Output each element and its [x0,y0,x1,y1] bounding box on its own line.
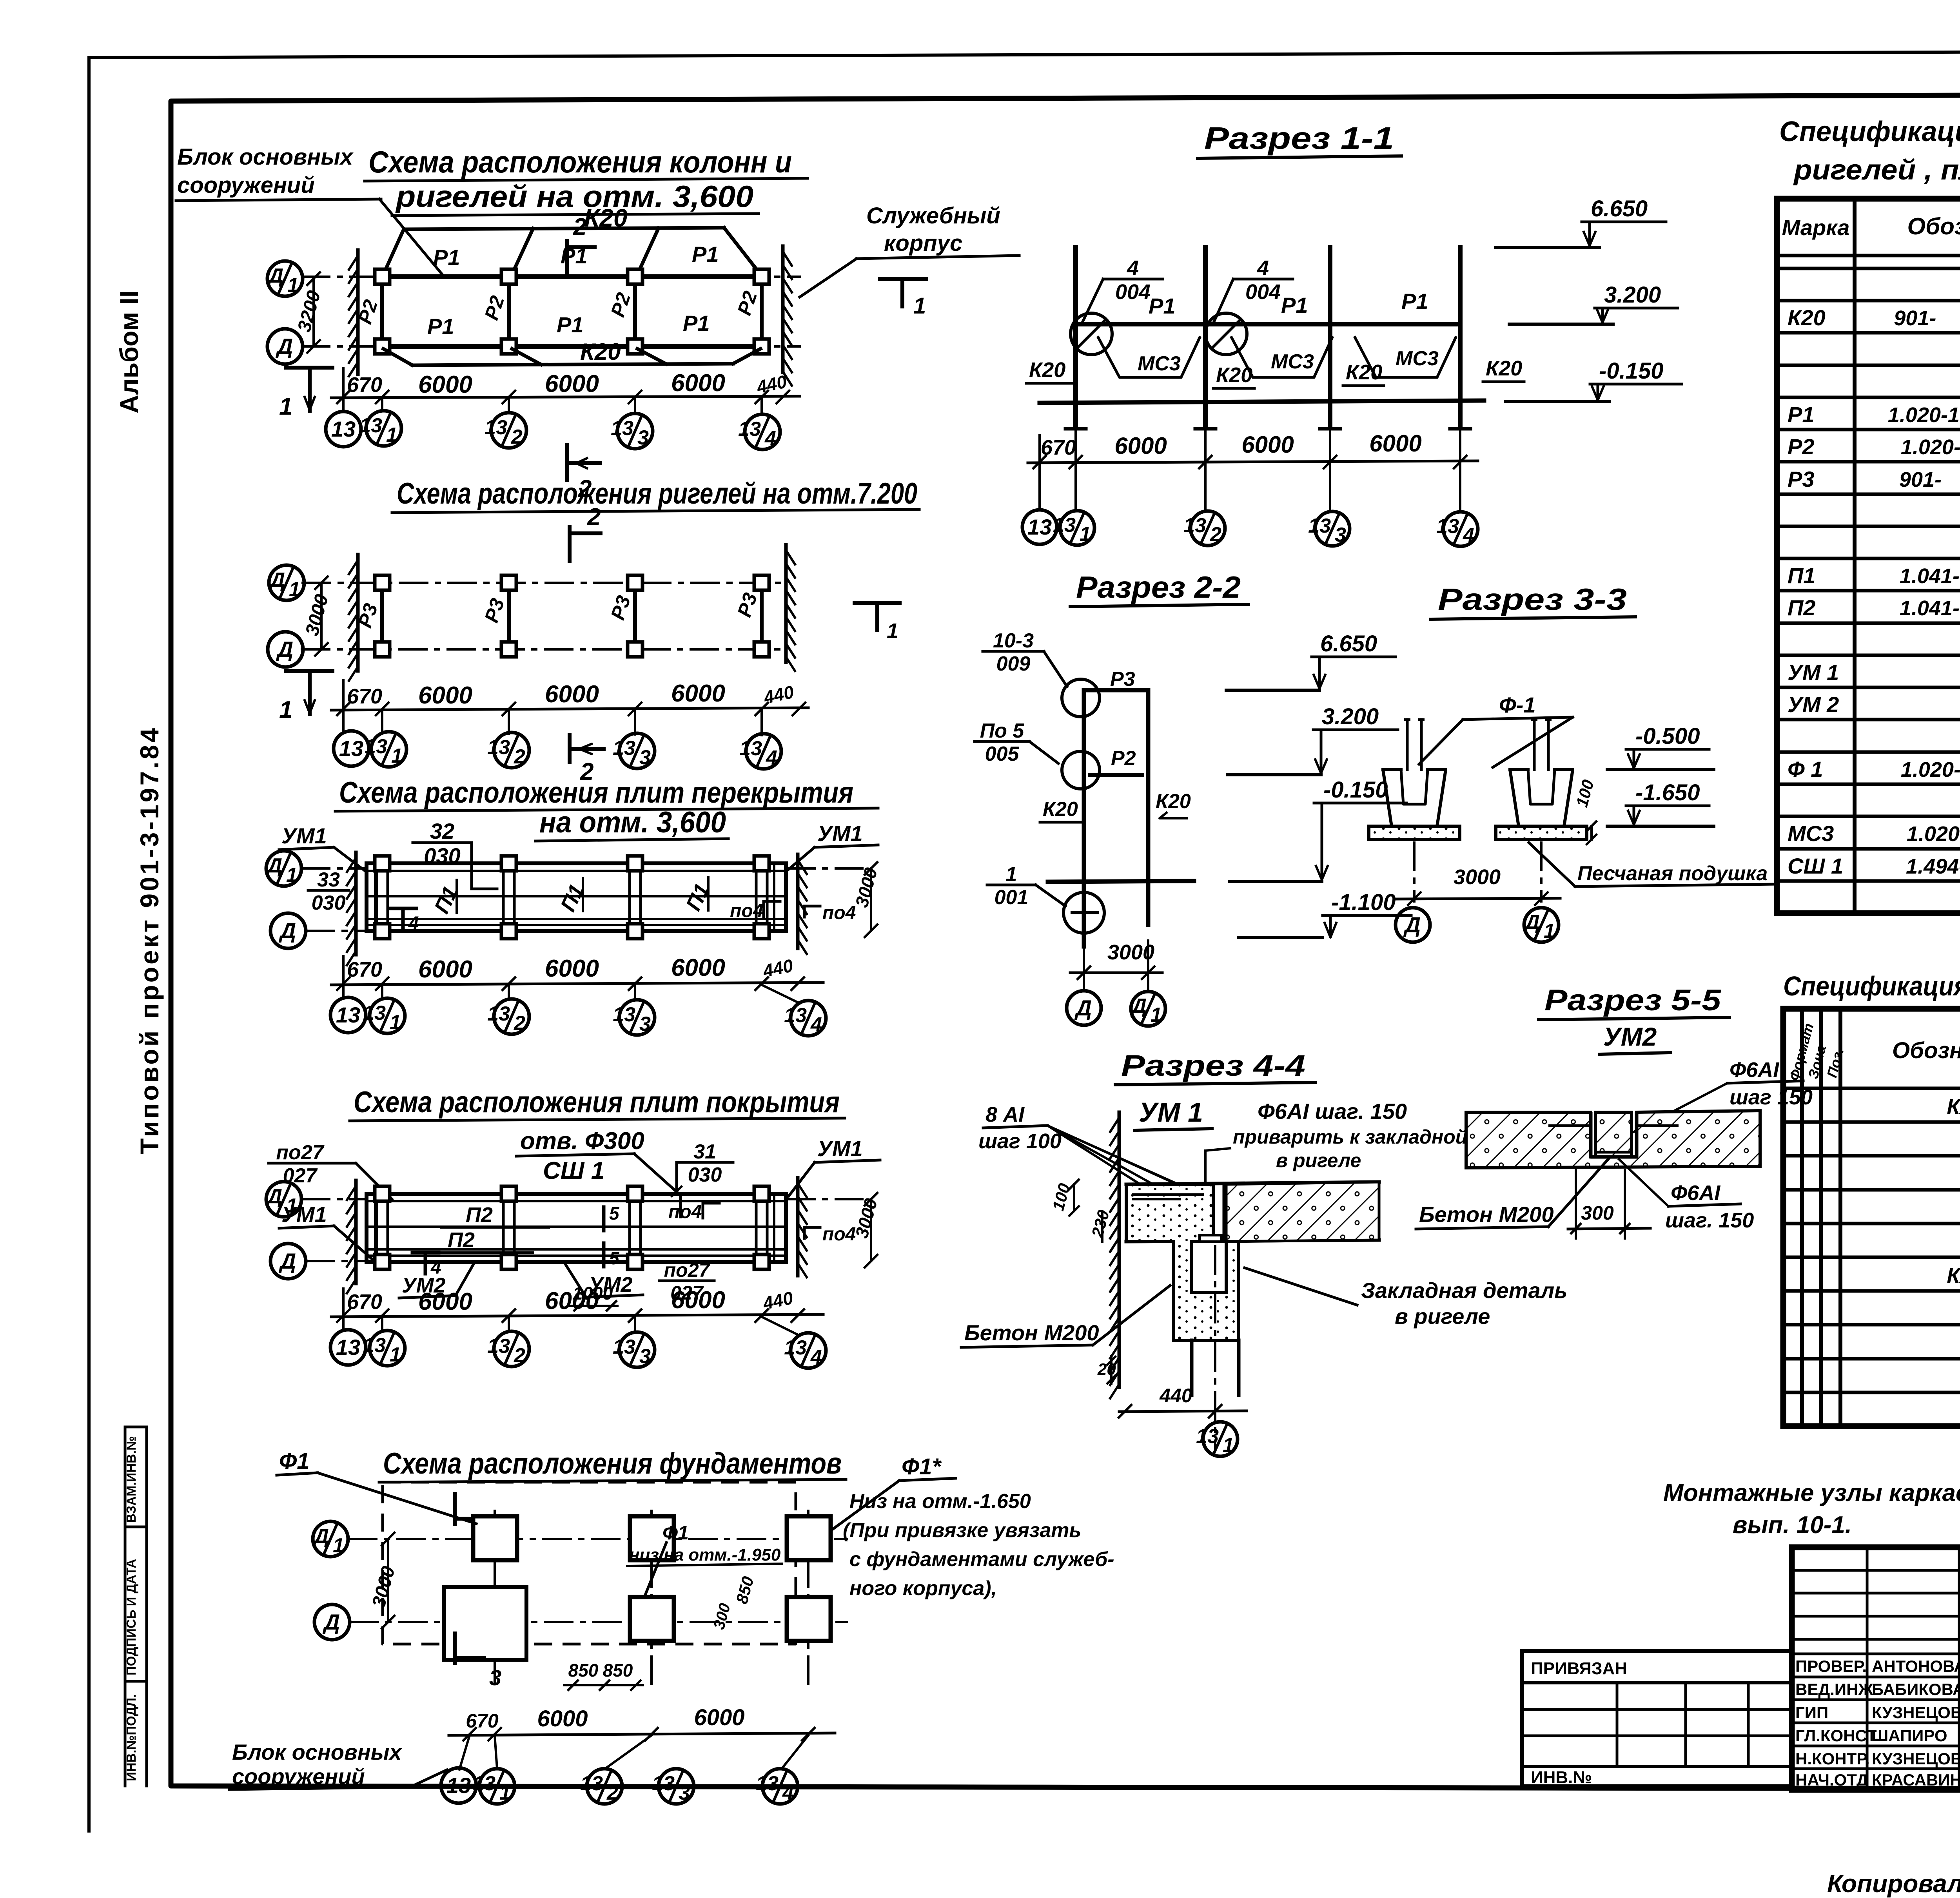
svg-text:1: 1 [279,696,292,723]
scheme1 girders P2 vertical [382,277,762,346]
table1 row R1 [1788,402,1960,427]
scheme3 label UM1 right [789,821,878,869]
razrez3 foundation glass right [1496,720,1587,839]
svg-text:по4: по4 [668,1202,702,1222]
svg-text:1: 1 [499,1782,511,1804]
svg-text:Д: Д [1074,995,1092,1020]
svg-text:6000: 6000 [1114,433,1167,459]
svg-text:1.041-1 В.1. 1000: 1.041-1 В.1. 1000 [1900,564,1960,588]
svg-text:К20: К20 [1216,363,1252,387]
svg-text:005: 005 [985,743,1020,765]
svg-text:4: 4 [766,747,777,769]
svg-text:030: 030 [312,892,346,914]
svg-text:4: 4 [764,427,776,450]
svg-text:УМ 1: УМ 1 [1139,1097,1203,1128]
svg-text:Обозначение: Обозначение [1892,1038,1960,1063]
svg-text:13: 13 [331,417,356,441]
label Sluzhebny korpus [800,203,1019,297]
scheme2 axis circles bottom row [334,710,781,769]
svg-text:670: 670 [347,1290,382,1314]
scheme1 left wall [356,250,360,374]
svg-text:Схема расположения ригелей на: Схема расположения ригелей на отм.7.200 [397,477,917,510]
svg-text:К20: К20 [1346,361,1382,384]
scheme1 girders P1 on axis D [382,344,762,349]
svg-text:Спецификация элементов моноли: Спецификация элементов монолитных участк… [1783,971,1960,1001]
svg-text:Низ на отм.-1.650: Низ на отм.-1.650 [849,1490,1031,1513]
svg-text:ИНВ.№: ИНВ.№ [1531,1768,1592,1787]
scheme4 axis D [270,1244,365,1279]
svg-text:13: 13 [365,735,387,758]
scheme1 right wall [781,246,785,372]
svg-text:КЖ-: КЖ- [1947,1095,1960,1118]
svg-text:1: 1 [333,1534,344,1557]
razrez1 columns K20 [1076,247,1460,426]
svg-text:1: 1 [1006,863,1017,886]
scheme4 section marks 5 [604,1203,620,1268]
svg-text:4: 4 [1257,256,1269,280]
svg-text:009: 009 [996,653,1031,675]
table1 row F1 [1788,757,1960,781]
svg-text:4: 4 [782,1782,794,1804]
svg-text:К20: К20 [1486,357,1522,380]
svg-text:-1.100: -1.100 [1331,890,1396,915]
scheme5 section mark 3 top [455,1494,501,1538]
svg-text:13: 13 [756,1772,779,1795]
svg-text:2: 2 [514,745,525,768]
svg-text:13: 13 [1308,515,1331,537]
svg-text:6000: 6000 [545,370,599,397]
svg-text:УМ 1: УМ 1 [1788,660,1839,685]
svg-text:Типовой проект 901-3-197.84: Типовой проект 901-3-197.84 [135,726,164,1154]
svg-text:13: 13 [485,416,507,439]
label Blok osnovnyh sooruzheniy bottom-left [229,1740,447,1789]
razrez1 ground line [1040,401,1484,403]
svg-text:440: 440 [1159,1385,1192,1407]
svg-text:1: 1 [1223,1434,1234,1457]
svg-text:Ф 1: Ф 1 [1788,757,1823,781]
svg-text:1: 1 [286,864,298,886]
svg-text:БАБИКОВА: БАБИКОВА [1872,1680,1960,1699]
scheme3 plate joints at columns [377,863,767,931]
scheme3 section mark 4 [390,908,419,934]
scheme5 building outline dashed [383,1482,796,1644]
table1 grid [1777,199,1960,913]
svg-text:низ на отм.-1.950: низ на отм.-1.950 [629,1545,781,1564]
scheme4 slab band [367,1194,786,1262]
svg-text:13: 13 [363,1002,386,1024]
razrez4 dim 20 [1097,1356,1116,1383]
svg-text:2: 2 [514,1344,525,1367]
razrez1 joint circles [1071,313,1247,355]
razrez 4-4 title [1115,1049,1315,1130]
svg-text:13: 13 [611,417,633,440]
razrez1 label 4/004 second [1213,256,1293,323]
razrez4 label Beton M200 [961,1285,1170,1347]
razrez1 MS3 connection trapezoids [1098,336,1456,377]
svg-text:1.041-1 В.1. 8000: 1.041-1 В.1. 8000 [1900,596,1960,620]
scheme4 dimension line [331,1287,823,1329]
scheme3 right wall [796,854,800,948]
svg-text:6.650: 6.650 [1320,631,1377,656]
scheme3 axis D/1 [266,851,862,886]
table1 row UM1 [1788,660,1960,685]
svg-text:Разрез 2-2: Разрез 2-2 [1076,570,1241,604]
razrez4 wall line with hatch [1118,1112,1121,1387]
razrez3 axis circles [1396,908,1559,943]
svg-text:1: 1 [279,393,292,420]
razrez1 dimension line [1028,430,1478,476]
razrez2 column lines [1084,690,1148,946]
text kopiroval [1824,1869,1960,1898]
razrez3 label F-1 [1419,692,1573,767]
svg-text:корпус: корпус [884,230,962,256]
scheme4 dim 3000 right [851,1193,881,1267]
table1 row K20 [1788,305,1960,330]
svg-text:К20: К20 [1788,305,1826,330]
svg-text:13: 13 [1183,514,1206,537]
svg-text:П1: П1 [1788,563,1815,588]
svg-text:6000: 6000 [671,954,725,981]
svg-text:13: 13 [1436,515,1459,538]
svg-text:3: 3 [489,1665,501,1690]
svg-text:К20: К20 [580,339,621,365]
scheme5 foundation squares row D [630,1597,831,1641]
svg-text:6000: 6000 [671,680,725,707]
scheme2 column squares [375,575,769,657]
svg-text:Разрез 3-3: Разрез 3-3 [1438,582,1627,616]
svg-text:6000: 6000 [1369,430,1421,457]
title block frame [1792,1547,1960,1790]
scheme5 axis D/1 [312,1521,847,1557]
svg-text:МС3: МС3 [1788,821,1834,846]
scheme3 label po4 right [804,903,856,923]
svg-text:31: 31 [693,1140,716,1163]
svg-text:Монтажные узлы каркаса гале: Монтажные узлы каркаса галереи приняты п… [1663,1479,1960,1506]
svg-text:6000: 6000 [418,956,472,983]
svg-text:МС3: МС3 [1271,350,1314,373]
razrez2 girder R3 top [1062,668,1148,717]
scheme2 left wall [356,555,360,671]
table1 heading [1779,116,1960,186]
scheme1 girder labels P1 upper [433,242,719,270]
svg-text:2: 2 [514,1012,525,1035]
svg-text:Д: Д [1403,912,1421,937]
razrez1 axis circles [1022,426,1478,547]
scheme3 column squares [375,856,769,939]
svg-text:Схема расположения фундаментов: Схема расположения фундаментов [383,1447,842,1480]
scheme2 labels P3 [354,590,761,631]
svg-text:1.020-1;3-15,000-01: 1.020-1;3-15,000-01 [1888,403,1960,427]
razrez1 labels K20 [1026,357,1524,388]
svg-text:Р1: Р1 [1281,293,1308,317]
svg-text:2: 2 [511,426,523,448]
svg-text:отв. Ф300: отв. Ф300 [520,1128,644,1155]
razrez 2-2 title [1070,570,1249,607]
svg-text:13: 13 [613,1336,635,1358]
svg-text:Копировал: Алешакова: Копировал: Алешакова [1827,1869,1960,1898]
svg-text:Д: Д [312,1525,329,1548]
svg-text:1: 1 [289,578,300,601]
svg-text:ВЕД.ИНЖ: ВЕД.ИНЖ [1795,1680,1873,1699]
svg-text:на отм. 3,600: на отм. 3,600 [539,806,726,839]
svg-text:Д: Д [279,918,296,943]
scheme1 top chord K20 [383,228,760,274]
svg-text:СШ 1: СШ 1 [543,1157,604,1184]
svg-text:Р1: Р1 [1788,402,1815,427]
scheme2 section mark 2 top [568,527,572,561]
svg-text:670: 670 [1041,436,1076,459]
scheme4 plate joints at columns [377,1194,767,1262]
svg-text:КУЗНЕЦОВ: КУЗНЕЦОВ [1872,1703,1960,1722]
svg-text:ИНВ.№ПОДЛ.: ИНВ.№ПОДЛ. [124,1694,138,1781]
svg-text:030: 030 [688,1164,722,1186]
svg-text:К20: К20 [1043,798,1078,821]
scheme4 left wall [354,1180,358,1283]
svg-text:13: 13 [1196,1425,1219,1448]
scheme5 section mark 3 bottom [455,1633,501,1690]
scheme2 dim 3000 between axes [301,576,332,656]
svg-text:вып. 10-1.: вып. 10-1. [1733,1512,1852,1539]
razrez2 axis circles [1067,984,1165,1026]
svg-text:по27: по27 [276,1141,324,1164]
razrez1 label 4/004 first [1082,256,1163,323]
svg-text:Альбом II: Альбом II [114,290,143,413]
svg-text:13: 13 [1053,514,1076,537]
svg-text:13: 13 [739,737,762,760]
svg-text:13: 13 [336,1002,360,1027]
scheme4 dim 1000 [570,1283,617,1311]
table2 row KZh- UM2 [1947,1263,1960,1287]
razrez4 dim 440 [1119,1385,1247,1418]
table1 header texts [1782,210,1960,255]
svg-text:13: 13 [1027,515,1052,539]
svg-text:Схема расположения колонн и: Схема расположения колонн и [368,145,792,179]
scheme4 label 31/030 [672,1140,733,1196]
razrez 5-5 title [1539,984,1730,1054]
svg-text:13: 13 [580,1772,603,1795]
svg-text:670: 670 [347,685,382,708]
scheme1 girders P1 on axis D/1 [382,274,762,279]
svg-text:2: 2 [1210,523,1221,546]
svg-text:3000: 3000 [1454,865,1501,889]
svg-text:Ф-1: Ф-1 [1499,692,1536,717]
svg-text:Р2: Р2 [1788,434,1815,459]
svg-text:2: 2 [573,214,586,241]
svg-text:МС3: МС3 [1138,352,1181,375]
scheme4 axis D/1 [266,1182,862,1217]
svg-text:Н.КОНТР.: Н.КОНТР. [1795,1749,1870,1768]
svg-text:001: 001 [995,886,1029,909]
razrez4 column below [1192,1246,1239,1450]
razrez 3-3 title [1431,582,1635,619]
svg-text:УМ1: УМ1 [281,1202,327,1227]
svg-text:10-3: 10-3 [993,629,1034,652]
svg-text:Д: Д [269,569,285,591]
svg-text:1: 1 [386,424,397,446]
scheme2 axis D [268,632,786,667]
scheme1 labels P2 [354,288,761,327]
scheme5 dim 3000 between axes [368,1533,399,1628]
svg-text:850: 850 [568,1660,599,1680]
scheme4 right wall [796,1178,800,1276]
svg-text:По 5: По 5 [980,720,1025,742]
scheme2 title [392,477,919,513]
svg-text:-0.150: -0.150 [1599,358,1663,384]
table2 row KZh- UM1 [1947,1094,1960,1118]
svg-text:Р2: Р2 [1111,747,1136,770]
svg-text:К20: К20 [1156,790,1191,813]
svg-text:Р1: Р1 [692,242,719,266]
svg-text:Д: Д [267,265,283,287]
svg-text:6000: 6000 [418,682,472,709]
svg-text:шаг 100: шаг 100 [978,1129,1062,1153]
svg-text:Д: Д [266,854,282,877]
svg-text:2: 2 [587,504,601,531]
svg-text:1.494-24 вып. 1: 1.494-24 вып. 1 [1906,855,1960,878]
svg-text:1.020-1.3-1 1.000: 1.020-1.3-1 1.000 [1901,435,1960,459]
svg-text:3: 3 [639,1345,651,1368]
table1 row UM2 [1788,692,1960,717]
svg-text:1: 1 [390,1343,401,1366]
svg-text:4: 4 [1127,256,1139,280]
scheme5 dimension line [449,1705,835,1740]
razrez 1-1 title [1198,121,1401,158]
scheme3 label 32/030 [413,819,497,889]
svg-text:УМ2: УМ2 [1603,1022,1657,1051]
svg-text:2: 2 [606,1782,618,1804]
scheme1 section mark 2 top [565,241,569,276]
scheme4 column squares [375,1186,769,1269]
svg-text:Обозначение: Обозначение [1907,213,1960,239]
razrez1 column base ticks [1065,427,1470,431]
svg-text:МС3: МС3 [1396,347,1439,370]
svg-text:1: 1 [287,274,299,297]
razrez4 dim 230 [1088,1208,1113,1242]
svg-text:Ф6АI: Ф6АI [1671,1181,1720,1205]
svg-text:приварить к закладной: приварить к закладной [1233,1126,1467,1148]
scheme4 labels UM2 below [399,1263,643,1298]
svg-text:1: 1 [1544,920,1555,943]
scheme4 axis circles bottom row [330,1317,826,1369]
title block left sub-table [1792,1547,1960,1790]
svg-text:НАЧ.ОТД: НАЧ.ОТД [1795,1771,1868,1789]
svg-text:Р3: Р3 [1110,668,1135,691]
svg-text:3: 3 [639,746,651,769]
scheme3 dim 3000 right [851,862,881,937]
svg-text:К20: К20 [1029,358,1065,382]
razrez2 base circle [1063,892,1104,933]
razrez1 girder line P1 [1076,322,1460,326]
svg-text:Р1: Р1 [683,311,710,335]
svg-text:3: 3 [679,1782,690,1804]
scheme1 title [365,145,808,216]
scheme3 label po4 inside [730,901,780,921]
svg-text:13: 13 [339,736,363,761]
razrez1 labels MS3 [1138,347,1439,375]
scheme4 slab labels P2 [425,1202,719,1253]
scheme2 girders P3 vertical [382,583,762,649]
svg-text:ПРОВЕР.: ПРОВЕР. [1795,1657,1867,1675]
svg-text:ного корпуса),: ного корпуса), [849,1577,997,1600]
razrez3 dim 3000 [1396,865,1560,905]
svg-text:УМ1: УМ1 [281,823,327,848]
svg-text:1: 1 [887,619,898,643]
section mark T1 right of scheme1 [880,279,926,319]
scheme1 axis D [267,329,800,364]
svg-text:13: 13 [336,1335,360,1360]
scheme4 title [350,1086,845,1121]
svg-text:13: 13 [359,414,382,437]
table1 row MS3 [1788,821,1960,846]
scheme2 section mark 2 bottom [570,735,604,785]
razrez4 monolithic UM1 zone [1126,1184,1239,1340]
scheme5 axis D [314,1604,847,1640]
svg-text:Блок основных: Блок основных [232,1740,403,1764]
svg-text:6000: 6000 [545,955,599,982]
svg-text:3.200: 3.200 [1604,282,1661,308]
svg-text:670: 670 [347,373,382,397]
razrez4 label F6AI shag150 privarit [1205,1099,1467,1196]
svg-text:Блок основных: Блок основных [177,144,354,170]
svg-text:Р1: Р1 [1401,289,1428,314]
svg-text:3.200: 3.200 [1322,704,1379,729]
svg-text:УМ1: УМ1 [817,821,863,846]
svg-text:6000: 6000 [545,681,599,708]
svg-text:4: 4 [1463,524,1474,547]
svg-text:по4: по4 [822,903,856,923]
svg-text:Служебный: Служебный [866,203,1000,228]
scheme5 dashed foundation on axis D [444,1587,526,1660]
svg-text:УМ1: УМ1 [817,1136,863,1161]
scheme3 slab band [367,863,786,931]
svg-text:Д: Д [276,334,293,359]
svg-text:13: 13 [784,1336,807,1359]
svg-text:300: 300 [1581,1202,1614,1224]
svg-text:13: 13 [738,418,761,441]
scheme5 foundation F1 squares row D/1 [473,1516,831,1560]
svg-text:3: 3 [637,426,649,449]
margin stamp column [124,1427,147,1786]
scheme1 dimension line [331,368,800,412]
svg-text:5: 5 [609,1248,620,1268]
svg-text:Ф6АI: Ф6АI [1730,1058,1779,1082]
svg-text:32: 32 [430,819,454,843]
scheme4 label otv F300 SSh1 [516,1128,681,1217]
svg-text:6000: 6000 [545,1287,599,1314]
svg-text:004: 004 [1115,280,1151,304]
svg-text:Д: Д [266,1185,282,1208]
svg-text:Марка: Марка [1782,215,1850,240]
scheme1 dim 3200 between axes [294,272,325,353]
razrez4 axis circle 13/1 [1196,1422,1238,1457]
svg-text:33: 33 [317,868,340,891]
svg-text:КУЗНЕЦОВ: КУЗНЕЦОВ [1872,1749,1960,1768]
razrez2 ground line [1048,881,1194,882]
razrez4 label 8AI shag 100 [978,1103,1213,1200]
svg-text:670: 670 [466,1710,499,1732]
svg-text:901- -КЖИ, К20: 901- -КЖИ, К20 [1894,306,1960,330]
svg-text:13: 13 [613,1003,635,1026]
svg-text:Д: Д [323,1610,340,1634]
svg-text:Разрез 4-4: Разрез 4-4 [1121,1049,1305,1082]
svg-text:Схема расположения плит перекр: Схема расположения плит перекрытия [339,776,853,809]
svg-text:Р1: Р1 [427,314,454,339]
svg-text:13: 13 [363,1334,386,1357]
svg-text:8 АI: 8 АI [985,1103,1025,1126]
scheme5 note F1* [831,1454,1114,1600]
razrez2 labels K20 [1040,790,1191,822]
table2 header texts [1786,1021,1960,1082]
